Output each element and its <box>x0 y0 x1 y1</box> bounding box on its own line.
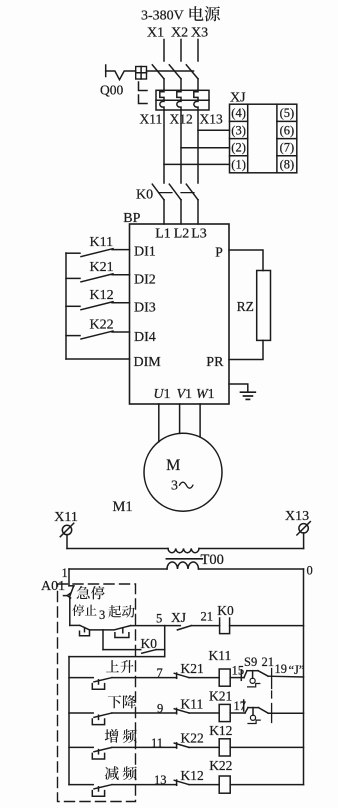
svg-text:X1: X1 <box>147 26 164 41</box>
svg-text:XJ: XJ <box>171 610 186 625</box>
svg-text:K0: K0 <box>141 636 158 651</box>
svg-text:L2: L2 <box>174 227 190 242</box>
svg-text:DIM: DIM <box>134 355 162 370</box>
svg-text:K21: K21 <box>181 661 204 676</box>
svg-text:(1): (1) <box>231 158 246 172</box>
svg-text:11: 11 <box>151 736 163 750</box>
svg-text:X3: X3 <box>191 26 208 41</box>
svg-text:L1: L1 <box>155 227 171 242</box>
svg-text:“J”: “J” <box>289 663 305 677</box>
svg-text:K22: K22 <box>90 317 114 332</box>
svg-text:(5): (5) <box>280 106 295 120</box>
svg-text:X11: X11 <box>140 112 163 127</box>
svg-text:DI4: DI4 <box>134 330 156 345</box>
svg-text:K11: K11 <box>209 648 232 663</box>
svg-text:W1: W1 <box>196 387 215 402</box>
svg-text:RZ: RZ <box>237 299 254 314</box>
svg-text:PR: PR <box>206 355 224 370</box>
svg-text:V1: V1 <box>177 387 193 402</box>
svg-text:21: 21 <box>201 610 214 624</box>
svg-text:DI2: DI2 <box>134 273 156 288</box>
svg-text:3: 3 <box>171 479 178 494</box>
svg-text:K11: K11 <box>181 696 204 711</box>
svg-text:K22: K22 <box>209 758 232 773</box>
svg-text:K0: K0 <box>217 603 234 618</box>
svg-text:K0: K0 <box>136 188 153 203</box>
svg-text:0: 0 <box>307 564 313 578</box>
svg-text:3: 3 <box>99 608 105 622</box>
svg-text:Q00: Q00 <box>100 83 123 98</box>
svg-text:XJ: XJ <box>230 91 246 106</box>
svg-text:(2): (2) <box>231 140 246 154</box>
svg-text:K11: K11 <box>90 235 114 250</box>
svg-text:K12: K12 <box>90 288 114 303</box>
svg-text:X13: X13 <box>200 112 223 127</box>
svg-text:3-380V: 3-380V <box>141 9 184 24</box>
svg-text:M1: M1 <box>113 499 133 515</box>
svg-text:U1: U1 <box>153 387 170 402</box>
svg-text:9: 9 <box>157 702 163 716</box>
svg-text:DI1: DI1 <box>134 244 156 259</box>
svg-text:(6): (6) <box>280 123 295 137</box>
svg-text:X13: X13 <box>285 509 309 524</box>
svg-text:17: 17 <box>234 699 247 713</box>
svg-text:13: 13 <box>154 773 167 787</box>
svg-text:X2: X2 <box>171 26 188 41</box>
svg-text:DI3: DI3 <box>134 301 156 316</box>
svg-text:15: 15 <box>232 664 245 678</box>
svg-text:L3: L3 <box>191 227 207 242</box>
svg-text:K21: K21 <box>209 689 232 704</box>
svg-text:S9: S9 <box>244 655 257 669</box>
svg-text:P: P <box>215 244 223 259</box>
svg-text:7: 7 <box>157 666 163 680</box>
svg-text:(3): (3) <box>231 123 246 137</box>
svg-text:21: 21 <box>262 655 275 669</box>
svg-text:1: 1 <box>62 566 68 580</box>
svg-text:19: 19 <box>275 662 288 676</box>
svg-text:(7): (7) <box>280 140 295 154</box>
svg-text:K12: K12 <box>181 768 204 783</box>
svg-text:5: 5 <box>156 612 162 626</box>
svg-text:T00: T00 <box>201 552 224 568</box>
svg-text:A01: A01 <box>41 579 65 594</box>
svg-text:(8): (8) <box>280 158 295 172</box>
svg-text:K22: K22 <box>181 731 204 746</box>
svg-text:(4): (4) <box>231 106 246 120</box>
svg-text:M: M <box>166 457 180 474</box>
svg-text:X11: X11 <box>54 510 78 525</box>
svg-text:K21: K21 <box>90 260 114 275</box>
svg-text:K12: K12 <box>209 723 232 738</box>
